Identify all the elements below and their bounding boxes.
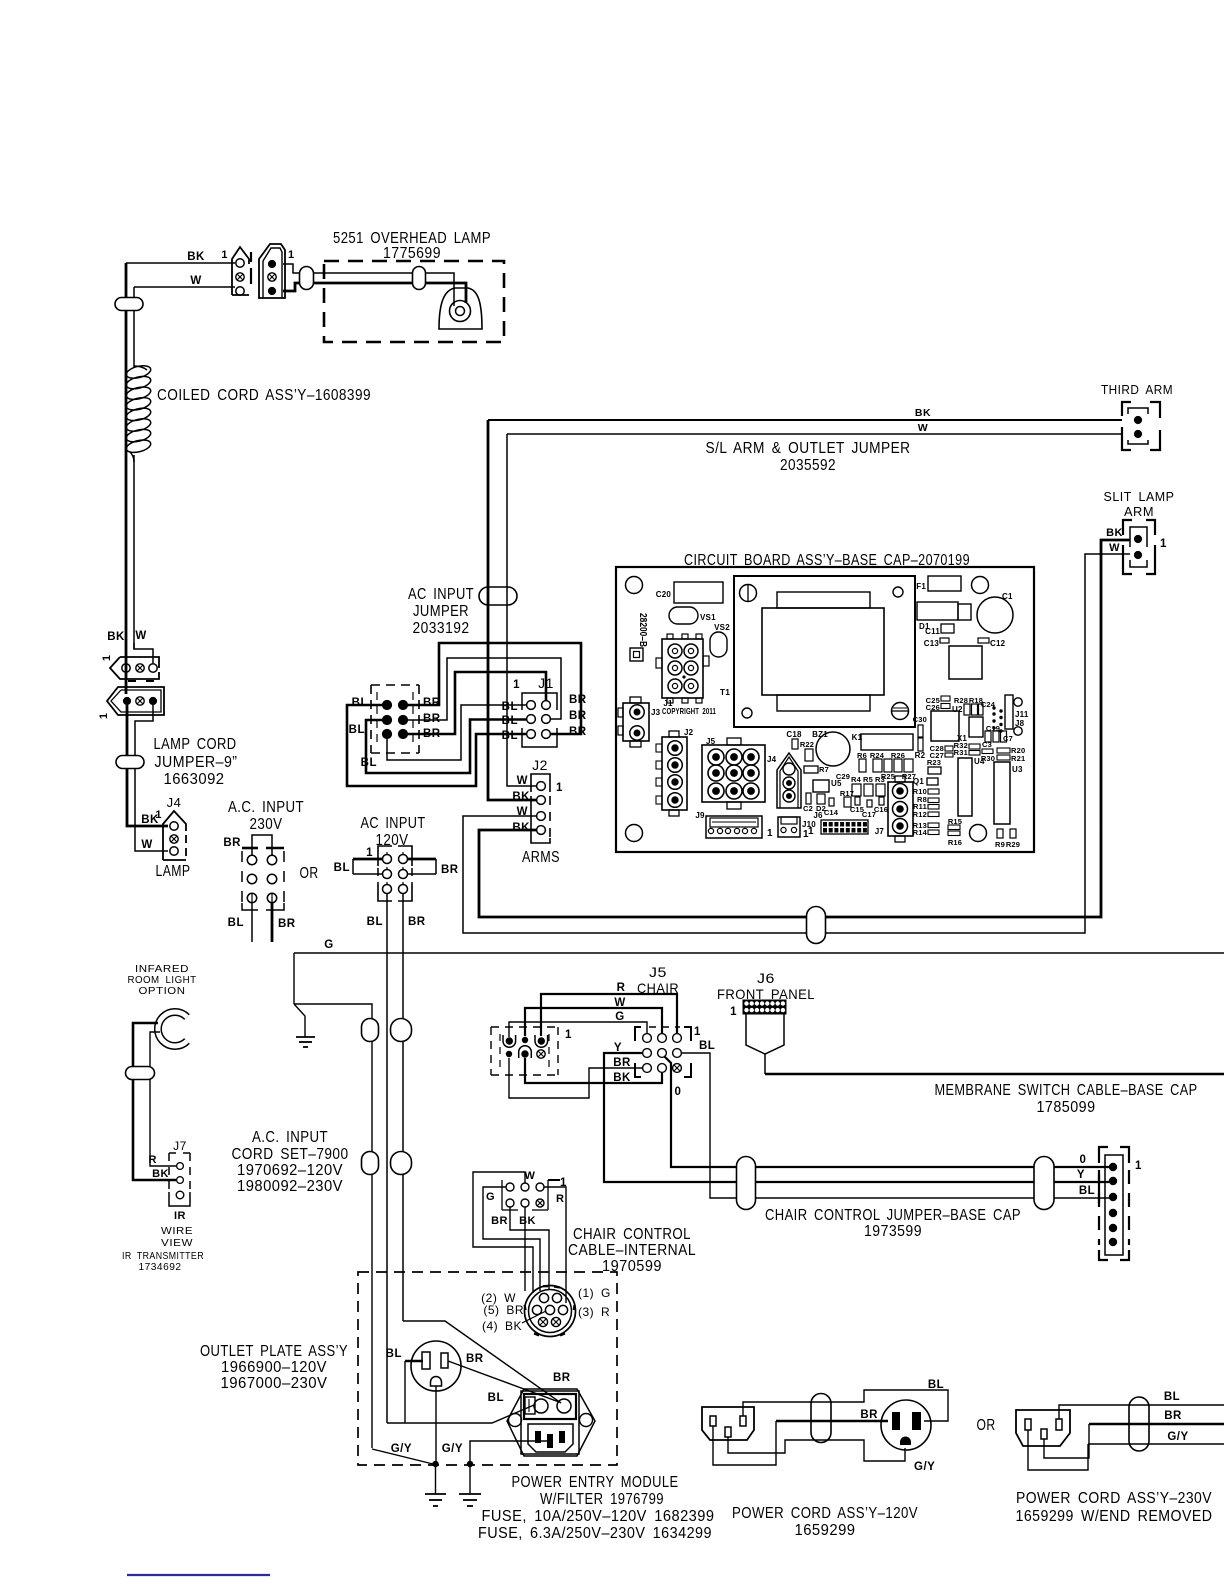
wire BL chair [682,1053,1109,1198]
svg-text:R7: R7 [819,765,829,774]
resistor R21 [997,755,1010,760]
connector J2 [531,774,550,843]
wire BL into outlet [405,1361,423,1423]
resistor R7 [804,766,818,773]
connector J6 pcb [821,820,868,834]
svg-text:1659299 W/END REMOVED: 1659299 W/END REMOVED [1016,1508,1213,1525]
varistor VS1 [669,607,698,624]
svg-text:BK: BK [613,1072,631,1084]
wire BR from 120V to module [403,1321,561,1403]
strain relief at lamp box edge [413,267,426,290]
jumper wire plug row2 to J1 row2 right [408,658,561,720]
label POWER ENTRY MODULE [478,1474,715,1542]
wire BK P4 down to J4 [127,705,168,826]
wire BK down left side [125,263,128,659]
wire W into P3 [134,643,153,663]
svg-text:BR: BR [491,1215,508,1227]
svg-text:R5: R5 [863,775,873,784]
ic U3 [994,762,1010,824]
receptacle 120V cord [881,1400,931,1450]
svg-text:CABLE–INTERNAL: CABLE–INTERNAL [568,1242,696,1259]
svg-text:W: W [918,422,928,434]
labels BL J1 left [502,701,518,742]
diode D2 [817,794,825,804]
svg-text:AC INPUT: AC INPUT [408,586,474,603]
svg-text:JUMPER–9”: JUMPER–9” [155,754,238,771]
connector J1 pcb [656,634,709,703]
svg-text:JUMPER: JUMPER [413,603,469,620]
wire W from SL jumper to J2 pin1 [507,434,536,786]
svg-text:R9: R9 [995,840,1005,849]
svg-text:T1: T1 [720,687,730,697]
connector third arm [1122,402,1160,450]
svg-text:W: W [1109,542,1120,554]
wire outlet ground down [435,1386,437,1464]
wire 0 chair [664,1056,1109,1167]
svg-text:BL: BL [334,862,350,874]
wire W chair [525,1008,662,1036]
svg-text:Y: Y [1077,1169,1085,1181]
labels W BK at J2 [512,775,530,834]
strain relief chair wires right [1034,1157,1054,1210]
svg-text:1: 1 [98,713,110,719]
svg-text:(3) R: (3) R [578,1305,610,1319]
svg-text:G/Y: G/Y [442,1443,463,1455]
svg-text:C11: C11 [925,627,940,636]
plug 120V cord [702,1407,754,1440]
svg-text:BL: BL [361,757,377,769]
svg-text:BL: BL [502,715,518,727]
wire BK through P3 to P4 [125,659,128,694]
svg-text:1: 1 [767,828,773,839]
svg-text:BZ1: BZ1 [812,730,828,739]
svg-text:BL: BL [699,1040,715,1052]
svg-text:1973599: 1973599 [864,1223,922,1240]
svg-text:R2: R2 [915,751,926,760]
svg-text:C7: C7 [1003,734,1013,743]
svg-text:C1: C1 [1002,592,1013,601]
strain relief 230V cord [1129,1397,1149,1451]
svg-text:1: 1 [101,655,113,661]
svg-text:J6: J6 [757,970,775,986]
svg-text:J5: J5 [706,737,716,746]
connector AC jumper plug [371,685,419,753]
svg-text:BL: BL [488,1392,504,1404]
capacitor C14 [829,798,834,806]
svg-text:BK: BK [519,1215,536,1227]
capacitor C2 [806,793,811,804]
wire membrane funnel [746,1014,784,1074]
label CHAIR CONTROL JUMPER-BASE CAP [765,1207,1021,1240]
svg-text:1: 1 [808,826,814,837]
svg-text:R23: R23 [927,758,941,767]
svg-text:2035592: 2035592 [780,457,836,474]
svg-text:C12: C12 [990,639,1006,648]
connector J3 pcb [618,697,649,747]
outlet receptacle [411,1341,461,1391]
svg-text:R22: R22 [800,740,814,749]
svg-text:G/Y: G/Y [914,1461,935,1473]
wire W below coil [133,455,135,649]
strain relief BR wire lower [391,1152,412,1175]
svg-text:W: W [135,630,146,642]
svg-text:J11: J11 [1015,710,1029,719]
svg-text:CORD SET–7900: CORD SET–7900 [232,1146,349,1163]
svg-text:2033192: 2033192 [413,620,470,637]
crystal X1 [969,717,983,737]
svg-text:U2: U2 [952,705,963,714]
wire BL from 120V to module [387,1405,534,1423]
wire R IR [150,1032,176,1166]
svg-text:WIRE: WIRE [161,1225,193,1237]
svg-text:A.C. INPUT: A.C. INPUT [252,1129,328,1146]
svg-text:C18: C18 [786,730,802,739]
svg-text:VIEW: VIEW [161,1237,193,1249]
connector J4 pcb [777,753,801,808]
label 1 internal [548,1179,560,1181]
transformer T1 [734,576,915,727]
svg-text:1775699: 1775699 [383,245,441,262]
label INFARED ROOM LIGHT OPTION [128,963,197,997]
connector internal wire view [502,1180,548,1210]
capacitor C20 [674,582,723,603]
svg-text:R14: R14 [913,828,928,837]
svg-text:BK: BK [152,1168,169,1180]
svg-text:R: R [556,1193,564,1205]
jumper wire plug row3 left to J1 row1 left [387,705,526,760]
svg-text:J8: J8 [1015,719,1025,728]
mounting hole top-right [972,577,989,594]
wire BK internal [524,1207,526,1291]
svg-text:28200–B: 28200–B [637,613,648,647]
ground symbol outlet [425,1464,446,1506]
svg-text:BR: BR [1164,1410,1182,1422]
connector J4 lamp [155,809,186,860]
connector J5 mate wire view [491,1027,558,1075]
connector J5 chair header [635,1027,691,1077]
strain relief top of jumper wires [479,587,517,605]
connector J2 pcb [656,731,687,816]
pointer line BK to center pin [522,1311,546,1323]
svg-text:BR: BR [223,837,241,849]
svg-text:BK: BK [915,407,931,419]
svg-text:1659299: 1659299 [795,1522,856,1539]
strain relief before lamp box [300,267,314,290]
svg-text:BL: BL [502,701,518,713]
svg-text:1966900–120V: 1966900–120V [221,1359,327,1376]
wire R internal [544,1187,566,1303]
connector P2 overhead lamp male [259,244,295,298]
label POWER CORD ASSY-120V [732,1505,918,1539]
wire G branch to module [294,1004,372,1448]
svg-text:J7: J7 [173,1139,187,1153]
wire BL 120V down [386,894,388,1423]
svg-text:LAMP: LAMP [156,863,191,880]
strain relief lamp cord [116,756,144,769]
resistor R20 [997,748,1010,753]
svg-text:R21: R21 [1011,754,1025,763]
ground symbol module [459,1464,481,1506]
svg-text:J4: J4 [767,755,777,764]
svg-text:1: 1 [694,1026,701,1038]
svg-text:J2: J2 [532,757,548,773]
connector J1 header [522,693,557,747]
capacitor C12 [978,638,989,643]
svg-text:BL: BL [386,1348,402,1360]
coiled cord [125,364,152,462]
svg-text:THIRD ARM: THIRD ARM [1101,383,1173,397]
svg-text:S/L ARM & OUTLET JUMPER: S/L ARM & OUTLET JUMPER [706,440,911,457]
symbol box B [630,648,643,661]
svg-text:1: 1 [221,249,228,261]
svg-text:BL: BL [502,730,518,742]
wire BR chair [509,1058,642,1098]
svg-text:BL: BL [352,697,368,709]
svg-text:(5) BR: (5) BR [483,1303,524,1317]
wire BR 230V cord [1044,1424,1224,1458]
svg-text:J7: J7 [875,827,885,836]
capacitor C16 [879,797,884,805]
svg-text:J4: J4 [167,795,182,810]
label POWER CORD ASSY-230V [1016,1490,1213,1525]
svg-text:OR: OR [300,865,319,882]
svg-text:BK: BK [1106,527,1123,539]
svg-text:G: G [324,939,333,951]
svg-text:1: 1 [513,679,520,691]
svg-text:1: 1 [556,782,563,794]
svg-text:C30: C30 [913,715,927,724]
svg-text:BR: BR [860,1409,878,1421]
svg-text:BR: BR [613,1057,631,1069]
strain relief 120V cord [811,1394,831,1443]
mounting hole bottom-right [970,825,987,842]
svg-text:1: 1 [288,249,295,261]
svg-text:W: W [525,1170,536,1182]
svg-text:U5: U5 [831,779,842,788]
wire W down to coil [133,287,135,368]
wire BK J2 pin4 to slit lamp [479,540,1130,917]
strain relief G wire upper [362,1019,379,1042]
svg-text:G/Y: G/Y [391,1443,412,1455]
resistor R29 [1010,829,1016,838]
svg-text:VS2: VS2 [714,623,730,632]
label A.C. INPUT CORD SET [232,1129,349,1195]
power entry module [507,1389,595,1456]
svg-text:1: 1 [366,847,373,859]
connector P1 overhead lamp female [221,247,251,295]
svg-text:R12: R12 [913,810,927,819]
svg-text:1: 1 [565,1029,572,1041]
lamp head symbol [439,288,482,329]
connector circular chair control [525,1286,576,1337]
svg-text:OR: OR [977,1417,996,1434]
svg-text:CHAIR CONTROL JUMPER–BASE CAP: CHAIR CONTROL JUMPER–BASE CAP [765,1207,1021,1224]
svg-text:BR: BR [423,713,441,725]
svg-text:ARMS: ARMS [522,849,560,866]
svg-text:CHAIR CONTROL: CHAIR CONTROL [573,1226,691,1243]
connector J7 pcb [888,776,913,842]
svg-text:U4: U4 [974,757,985,766]
buzzer BZ1 [816,732,850,766]
svg-text:MEMBRANE SWITCH CABLE–BASE CAP: MEMBRANE SWITCH CABLE–BASE CAP [935,1082,1198,1099]
svg-text:R3: R3 [875,775,885,784]
ic U4 [958,758,972,816]
svg-text:OPTION: OPTION [139,985,186,997]
svg-text:POWER CORD ASS’Y–120V: POWER CORD ASS’Y–120V [732,1505,918,1522]
svg-text:C16: C16 [874,805,888,814]
svg-text:R: R [617,982,626,994]
resistor R9 [997,829,1003,838]
connector P4 male lamp cord [98,687,164,719]
wire G chair [509,1022,647,1037]
wire GY 120V cord [728,1437,905,1461]
wire G internal [483,1187,540,1291]
strain relief IR wires [126,1067,155,1080]
varistor VS2 [710,632,727,657]
plug 230V cord [1016,1410,1070,1446]
wire W to P1 [133,286,135,288]
jumper wire plug row2 left to J1 row2 left [366,720,526,774]
wire BL 230V cord [1059,1405,1224,1419]
svg-text:W: W [141,839,152,851]
svg-text:J6: J6 [813,811,823,820]
svg-text:Y: Y [614,1042,622,1054]
svg-text:1967000–230V: 1967000–230V [221,1375,328,1392]
svg-text:BL: BL [928,1379,944,1391]
svg-text:W/FILTER 1976799: W/FILTER 1976799 [540,1491,664,1508]
svg-text:1: 1 [1135,1160,1142,1172]
svg-text:IR: IR [174,1210,186,1222]
wire W P4 down to J4 [135,705,168,851]
capacitor C15 [855,797,860,805]
svg-text:C2: C2 [803,804,813,813]
svg-text:OUTLET PLATE ASS’Y: OUTLET PLATE ASS’Y [200,1343,348,1360]
connector J10 pcb [778,817,800,837]
mounting hole bottom-left [626,825,643,842]
wire BR 230V stub [271,903,274,942]
label IR TRANSMITTER 1734692 [122,1250,204,1273]
svg-text:C13: C13 [924,639,940,648]
wire BR 120V cord [713,1421,888,1465]
svg-text:(1) G: (1) G [578,1286,611,1300]
svg-text:BR: BR [408,916,426,928]
wire membrane cable [765,1073,1224,1075]
svg-text:BK: BK [187,251,205,263]
svg-text:ARM: ARM [1124,505,1154,519]
svg-text:AC INPUT: AC INPUT [361,815,426,832]
svg-text:W: W [190,275,201,287]
svg-text:J2: J2 [684,728,694,737]
svg-text:BL: BL [1164,1391,1180,1403]
wire BK to P1 [126,262,235,264]
label WIRE VIEW [161,1225,193,1249]
svg-text:J5: J5 [649,964,667,980]
wire W SL arm jumper [507,433,1122,435]
svg-text:FUSE, 10A/250V–120V 1682399: FUSE, 10A/250V–120V 1682399 [482,1508,715,1525]
svg-text:1: 1 [1160,538,1167,550]
svg-text:BK: BK [107,631,125,643]
bridge rectifier [949,646,982,679]
strain relief on arm wires [807,907,826,944]
jumper BR 120V [408,859,436,874]
strain relief G wire lower [362,1152,379,1175]
IR lamp symbol [158,1012,187,1046]
jumper wire plug row1 to J1 row3 right [408,643,581,734]
wire W J2 pin3 to slit lamp [463,554,1130,933]
wire BL 230V stub [251,903,253,942]
strain relief chair wires left [737,1157,756,1210]
wire GY from module [470,1441,547,1464]
svg-text:0: 0 [675,1086,682,1098]
mounting hole top-left [626,577,643,594]
svg-text:BK: BK [512,822,530,834]
via dots [992,706,1002,732]
svg-text:VS1: VS1 [700,613,716,622]
svg-text:C14: C14 [824,808,839,817]
wire BR outlet to module [448,1361,559,1402]
svg-text:POWER CORD ASS’Y–230V: POWER CORD ASS’Y–230V [1016,1490,1212,1507]
svg-text:R16: R16 [948,838,962,847]
wire BR 120V down [402,894,404,1321]
wire BK from SL jumper to J2 pin2 [488,420,536,800]
capacitor C17 [867,800,872,807]
ic U2 [931,711,959,741]
wires P2 to lamp box [283,264,466,306]
svg-text:C3: C3 [982,740,992,749]
wire W internal [473,1172,533,1293]
svg-text:J3: J3 [651,708,661,717]
junction dot module ground [467,1461,473,1467]
dashed box overhead lamp [324,261,504,342]
svg-text:BR: BR [553,1372,571,1384]
junction dot outlet ground [432,1461,438,1467]
dashed box outlet plate [358,1272,617,1465]
svg-text:R29: R29 [1006,840,1020,849]
connector J9 pcb [706,816,762,838]
svg-text:BL: BL [367,916,383,928]
connector P3 female lamp cord [101,655,159,681]
labels BR J1 right [569,694,587,738]
wire Y chair [604,1053,1109,1182]
wire R chair [541,994,677,1036]
svg-text:0: 0 [1080,1154,1087,1166]
capacitor C1 [977,597,1013,633]
jumper BL 120V [353,859,382,874]
wire G diagonal to junction [372,1449,433,1464]
svg-text:BR: BR [569,694,587,706]
jumper wire plug row3 to J1 row1 right [408,672,546,734]
wire BR internal [510,1207,549,1289]
blue footer line [127,1574,270,1576]
svg-text:1980092–230V: 1980092–230V [237,1178,343,1195]
jumper wire plug row1 left to J1 row3 left [347,705,526,786]
labels 0 Y BL at jumper [1077,1154,1095,1197]
connector base cap 6pin [1099,1147,1129,1260]
svg-text:R31: R31 [954,748,968,757]
svg-text:G: G [615,1011,624,1023]
svg-text:A.C. INPUT: A.C. INPUT [228,799,304,816]
svg-text:BL: BL [1079,1185,1095,1197]
svg-text:BR: BR [569,726,587,738]
connector slit lamp arm [1123,520,1155,574]
strain relief BR wire upper [391,1019,412,1042]
svg-text:BL: BL [228,917,244,929]
svg-text:J9: J9 [695,811,705,820]
labels circular connector left [481,1291,524,1333]
label MEMBRANE SWITCH CABLE-BASE CAP [935,1082,1198,1116]
svg-text:F1: F1 [916,582,926,591]
svg-text:230V: 230V [250,816,283,833]
